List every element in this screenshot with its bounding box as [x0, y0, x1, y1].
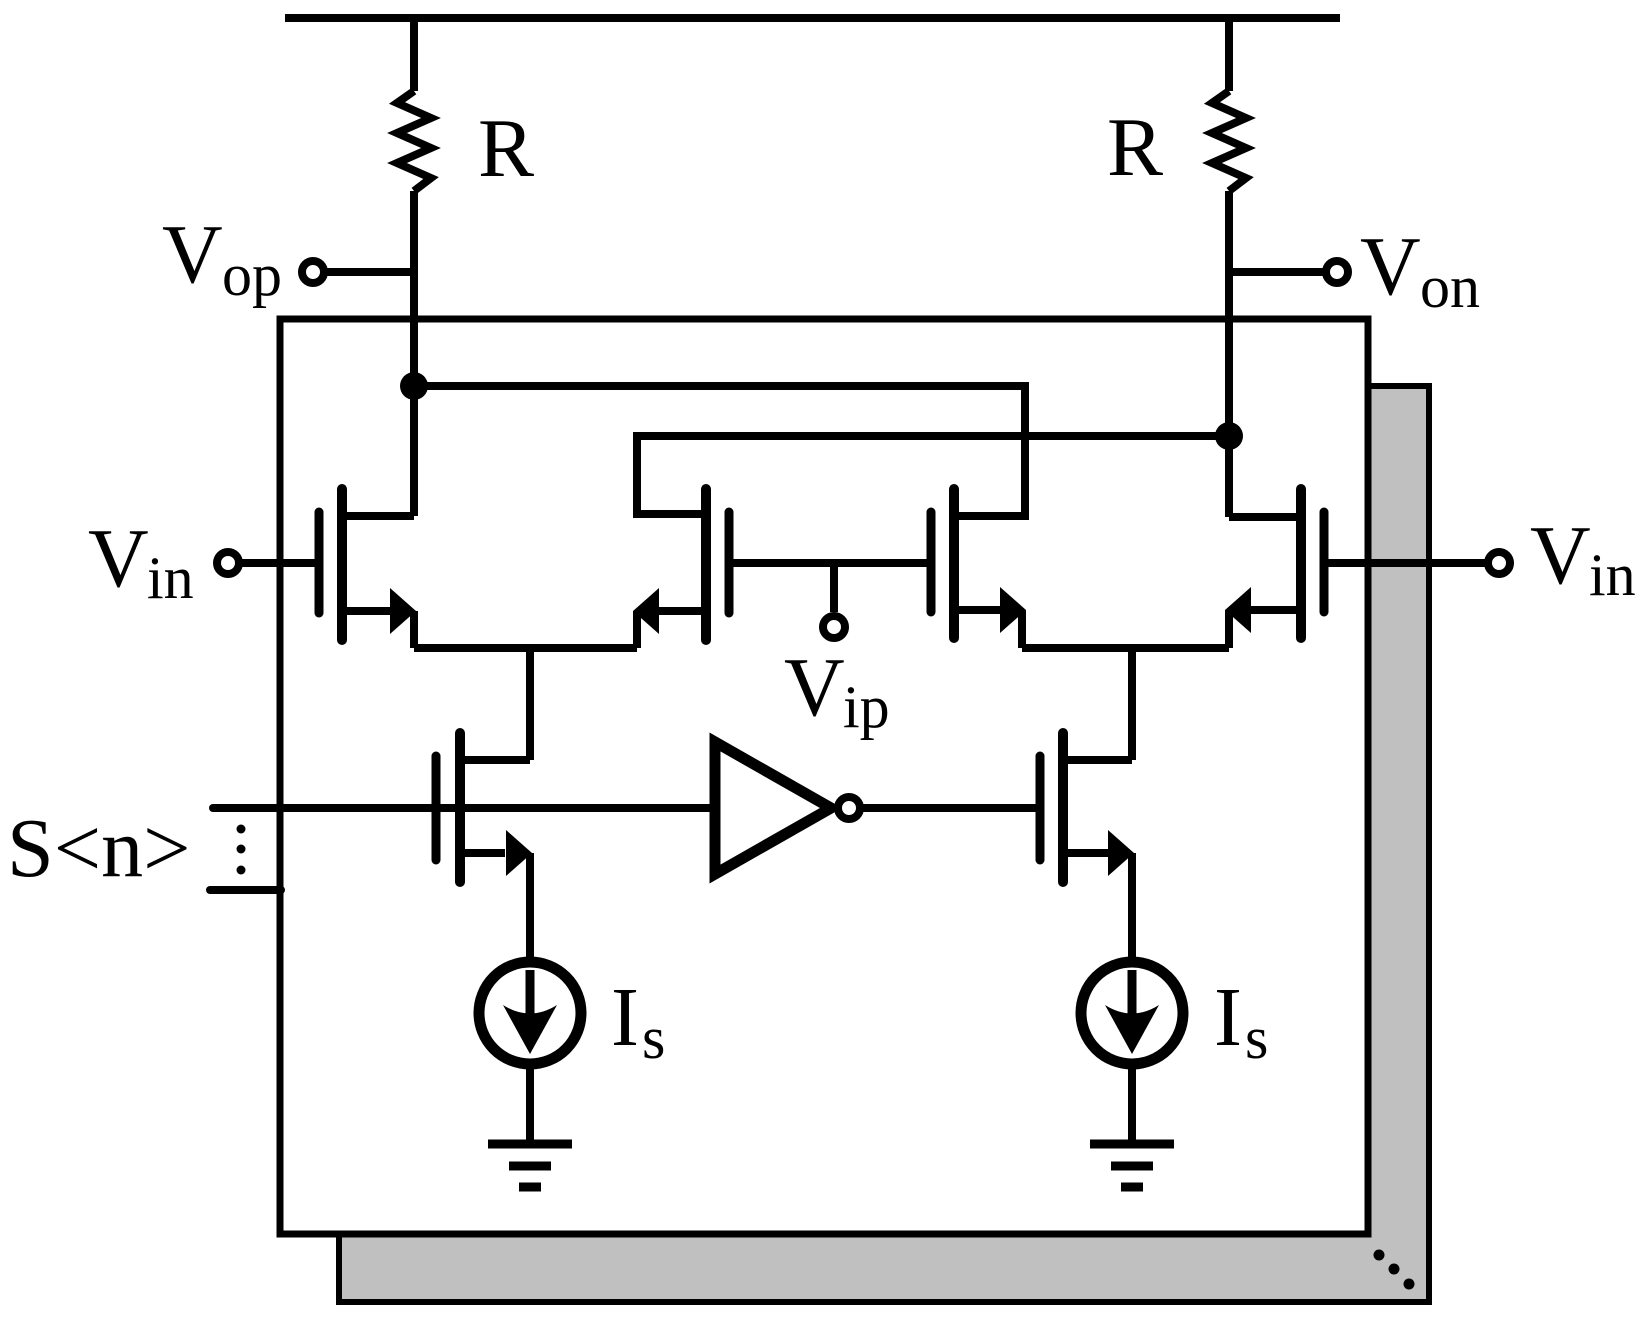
wire R1 down to M1 drain	[410, 191, 418, 516]
svg-text:V: V	[1530, 509, 1591, 602]
terminal Vin (left)	[217, 552, 239, 574]
S bus vertical dots	[237, 825, 246, 875]
wire left tail drop to M5	[526, 648, 534, 760]
wire Is to ground (right)	[1128, 1060, 1136, 1144]
wire source bus right pair	[1022, 644, 1229, 652]
wire cross-couple B: M4 drain to M2 drain	[637, 436, 1229, 514]
cell box (white, front cell)	[280, 319, 1368, 1234]
wire source bus left pair	[414, 644, 637, 652]
wire Vip stub	[830, 563, 838, 612]
label Vip	[784, 641, 890, 740]
wire inverter output to M6 gate	[861, 804, 1036, 812]
wire R2 down to M4 drain	[1225, 191, 1233, 517]
label Vin (left)	[88, 512, 194, 611]
transistor M2 (cross pair, gate at right)	[633, 489, 729, 648]
ground (right)	[1090, 1144, 1174, 1187]
wire S<n> upper line to M5 gate and inverter input	[213, 804, 710, 812]
svg-text:s: s	[642, 1005, 665, 1071]
transistor M5 (left switch, gate at left)	[436, 733, 532, 962]
label Von	[1360, 220, 1480, 320]
resistor R1	[397, 91, 431, 191]
wire Vop tap	[324, 268, 414, 276]
wire Is to ground (left)	[526, 1060, 534, 1144]
inverter U1	[715, 742, 860, 874]
wire rail to R1	[410, 18, 418, 91]
svg-text:R: R	[1107, 101, 1163, 194]
svg-text:V: V	[1360, 220, 1421, 313]
wire Vip gate net (M2 gate to M3 gate)	[733, 559, 931, 567]
ellipsis dots (repeated cells)	[1374, 1250, 1415, 1290]
label Vin (right)	[1530, 509, 1636, 608]
wire S<n> lower stub	[210, 886, 281, 894]
transistor M6 (right switch, gate at left)	[1040, 733, 1134, 962]
svg-text:V: V	[784, 641, 845, 734]
svg-text:on: on	[1420, 254, 1480, 320]
wire rail to R2	[1225, 18, 1233, 91]
wire Vin to M1 gate	[239, 559, 315, 567]
svg-text:op: op	[222, 242, 282, 308]
label Is (right)	[1214, 971, 1268, 1071]
wire right tail drop to M6	[1128, 648, 1136, 760]
svg-text:V: V	[88, 512, 149, 605]
shadow cell box (gray, repeated-cell indication)	[339, 386, 1429, 1302]
svg-text:s: s	[1245, 1005, 1268, 1071]
terminal Vin (right)	[1488, 552, 1510, 574]
transistor M4 (input pair right, gate at right)	[1225, 436, 1324, 648]
svg-text:S<n>: S<n>	[7, 802, 190, 895]
terminal Vip	[823, 616, 845, 638]
label Is (left)	[611, 971, 665, 1071]
svg-text:V: V	[162, 208, 223, 301]
svg-text:I: I	[1214, 971, 1242, 1064]
terminal Vop	[302, 261, 324, 283]
current source Is (right)	[1081, 962, 1183, 1064]
resistor R2	[1212, 91, 1246, 191]
transistor M3 (cross pair, gate at left)	[931, 489, 1026, 648]
wire cross-couple A: M1 drain to M3 drain	[414, 386, 1025, 516]
label Vop	[162, 208, 282, 308]
wire M4 gate to Vin right	[1328, 559, 1488, 567]
transistor M1 (input pair left, gate at left)	[319, 385, 416, 648]
svg-text:in: in	[1589, 542, 1636, 608]
node B (drain of M4, junction dot)	[1215, 422, 1243, 450]
svg-text:I: I	[611, 971, 639, 1064]
wire Von tap	[1229, 268, 1326, 276]
svg-text:ip: ip	[843, 674, 890, 740]
node A (drain of M1, junction dot)	[400, 372, 428, 400]
terminal Von	[1326, 261, 1348, 283]
ground (left)	[488, 1144, 572, 1187]
svg-text:in: in	[147, 545, 194, 611]
current source Is (left)	[479, 962, 581, 1064]
svg-text:R: R	[478, 102, 534, 195]
supply rail (top)	[285, 14, 1340, 22]
